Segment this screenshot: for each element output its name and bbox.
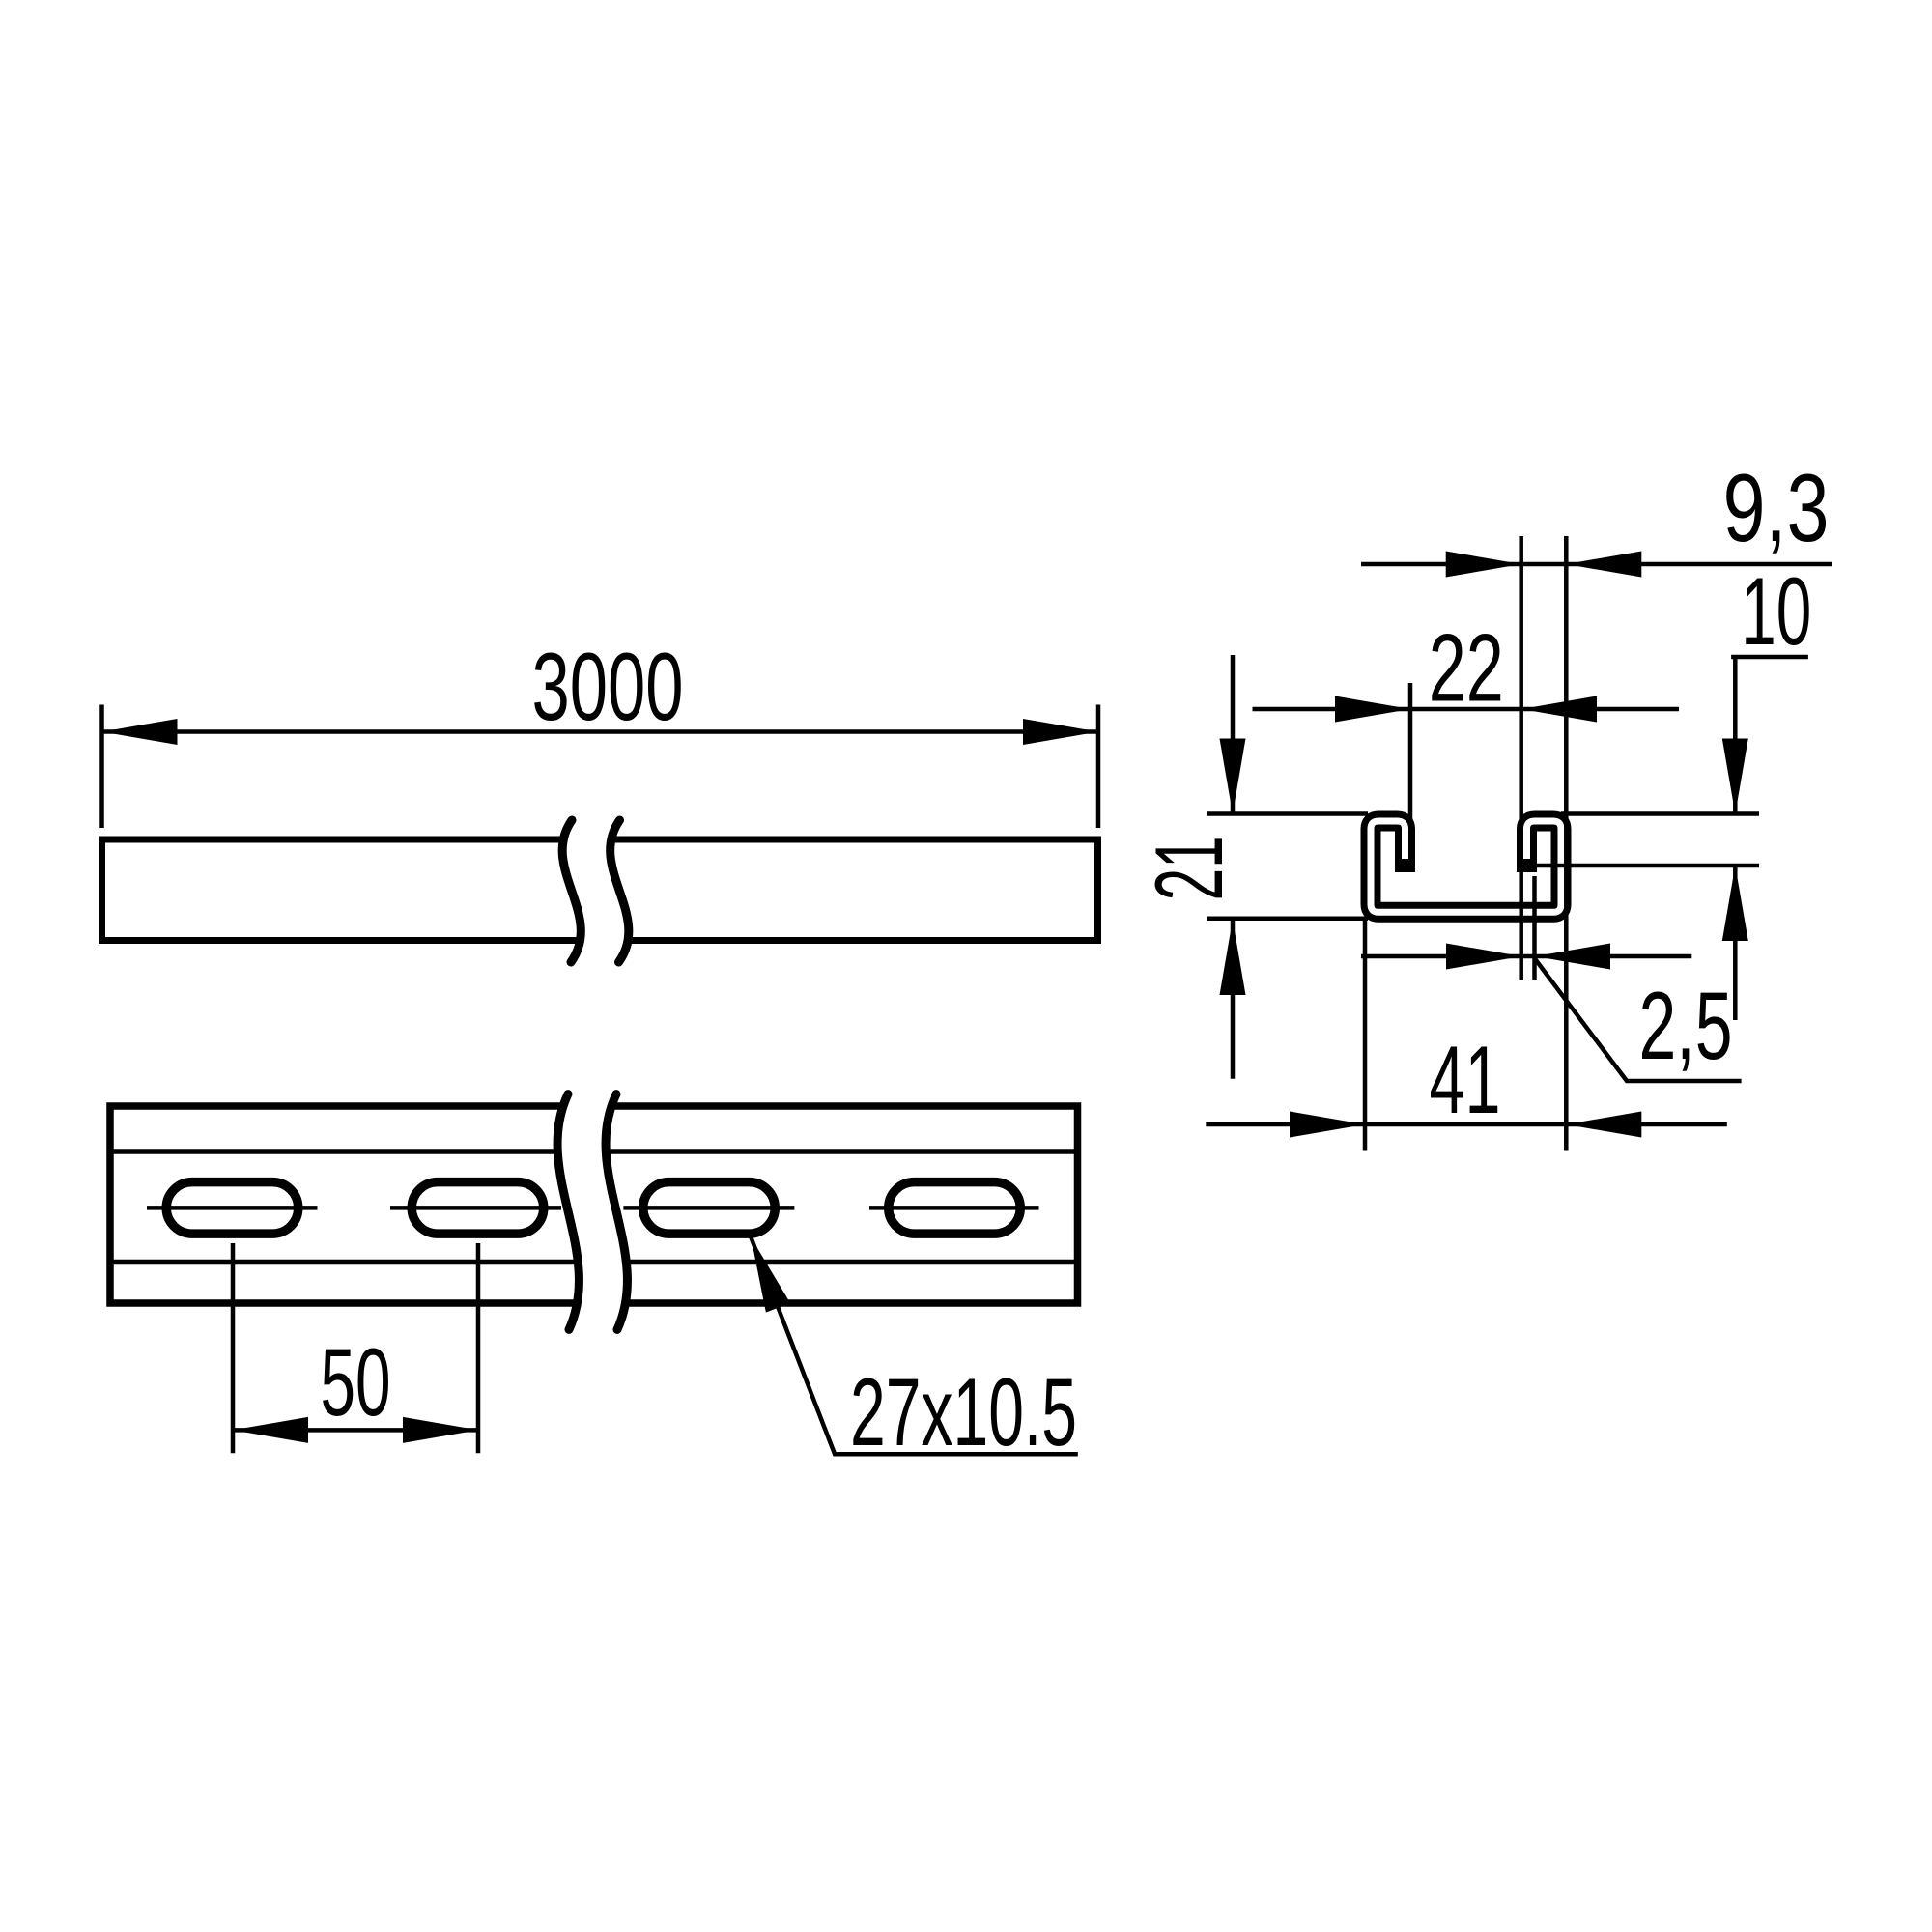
plan view: rail outline (110, 1106, 1078, 1303)
side view: break line left (562, 820, 581, 962)
dimension 3000: right extension line (1096, 705, 1101, 829)
section: channel profile inner white line (1371, 821, 1561, 912)
dim 21: lower leader line (1231, 920, 1236, 1079)
svg-text:50: 50 (321, 1328, 391, 1435)
slot 2 centerline (390, 1206, 561, 1210)
slot 3 centerline (623, 1206, 794, 1210)
dimension 3000: left arrowhead (102, 719, 178, 745)
section: right lip tip cap (1517, 859, 1537, 872)
dim 2,5: left arrowhead (1446, 944, 1521, 970)
dimension 50: right extension line (476, 1243, 481, 1453)
dim 10: upper arrowhead (1722, 739, 1748, 814)
dim 21: upper leader line (1231, 655, 1236, 814)
dimension 50: dimension line (233, 1428, 478, 1433)
svg-text:2,5: 2,5 (1639, 972, 1733, 1079)
dim 10: upper extension line (1561, 811, 1759, 816)
svg-text:10: 10 (1741, 557, 1811, 665)
side view: break line right (611, 820, 629, 962)
svg-text:41: 41 (1430, 1026, 1501, 1133)
dim 41: left extension line (1363, 920, 1368, 1151)
slot 4 centerline (869, 1206, 1039, 1210)
side view: break gap white band (562, 820, 629, 962)
dim 10: label underline (1731, 655, 1808, 660)
slot 1 centerline (147, 1206, 318, 1210)
dim 10: lower arrowhead (1722, 866, 1748, 941)
section: left lip tip cap (1395, 859, 1415, 872)
dim 22: right arrowhead (1521, 696, 1597, 723)
dim 2,5: leader line (1535, 958, 1742, 1081)
dim 41: right arrowhead (1566, 1112, 1641, 1138)
dim 41: left arrowhead (1290, 1112, 1365, 1138)
dimension 50: left arrowhead (233, 1417, 308, 1443)
plan view: break line right (606, 1094, 627, 1330)
dim 9,3: dimension line (1361, 562, 1832, 567)
side view: rail body outline (102, 839, 1098, 941)
dimension 3000: dimension line (102, 729, 1099, 734)
dim 22: dimension line (1253, 707, 1680, 712)
dim 22: left extension line (1408, 683, 1413, 826)
slot 2 (412, 1182, 544, 1235)
leader arrowhead (739, 1233, 790, 1312)
dim 2,5: dimension line (1361, 954, 1691, 959)
dimension 3000: left extension line (99, 705, 104, 829)
dim 9,3: left arrowhead (1446, 552, 1521, 578)
slot 4 (889, 1182, 1021, 1235)
svg-text:22: 22 (1429, 614, 1504, 722)
dim 22: left arrowhead (1335, 696, 1410, 723)
dimension 50: right arrowhead (403, 1417, 478, 1443)
dim 21: upper arrowhead (1220, 739, 1246, 814)
dim 9,3: right extension line (wall face, shared with 41) (1564, 536, 1569, 1151)
plan view: break line left (557, 1094, 579, 1330)
dim 21: lower extension line (1207, 917, 1368, 922)
dim 41: dimension line (1206, 1122, 1727, 1127)
dim 2,5: right arrowhead (1535, 944, 1610, 970)
dimension 50: left extension line (231, 1243, 236, 1453)
dim 9,3: shared left extension line (lip face) (1519, 536, 1523, 980)
svg-text:9,3: 9,3 (1723, 454, 1830, 561)
slot 3 (643, 1182, 776, 1235)
dim 10: lower leader line (1733, 866, 1738, 1020)
dim 9,3: right arrowhead (1566, 552, 1641, 578)
dim 10: upper leader line (1733, 657, 1738, 814)
slot 1 (27x10.5) (166, 1182, 298, 1235)
plan view: upper fold line (110, 1149, 1078, 1154)
dim 21: upper extension line (1207, 811, 1368, 816)
svg-text:3000: 3000 (532, 633, 684, 740)
leader line for slot size (751, 1237, 1077, 1454)
dim 21: lower arrowhead (1220, 920, 1246, 995)
section: channel profile metal (1371, 821, 1561, 912)
dimension 3000: right arrowhead (1023, 719, 1098, 745)
plan view: lower fold line (110, 1260, 1078, 1265)
dim 10: lower extension line (1537, 864, 1760, 868)
svg-text:21: 21 (1135, 836, 1242, 900)
plan view: break gap white band (557, 1094, 627, 1330)
svg-text:27x10.5: 27x10.5 (850, 1358, 1077, 1465)
dim 2,5: right extension line (1532, 876, 1537, 980)
